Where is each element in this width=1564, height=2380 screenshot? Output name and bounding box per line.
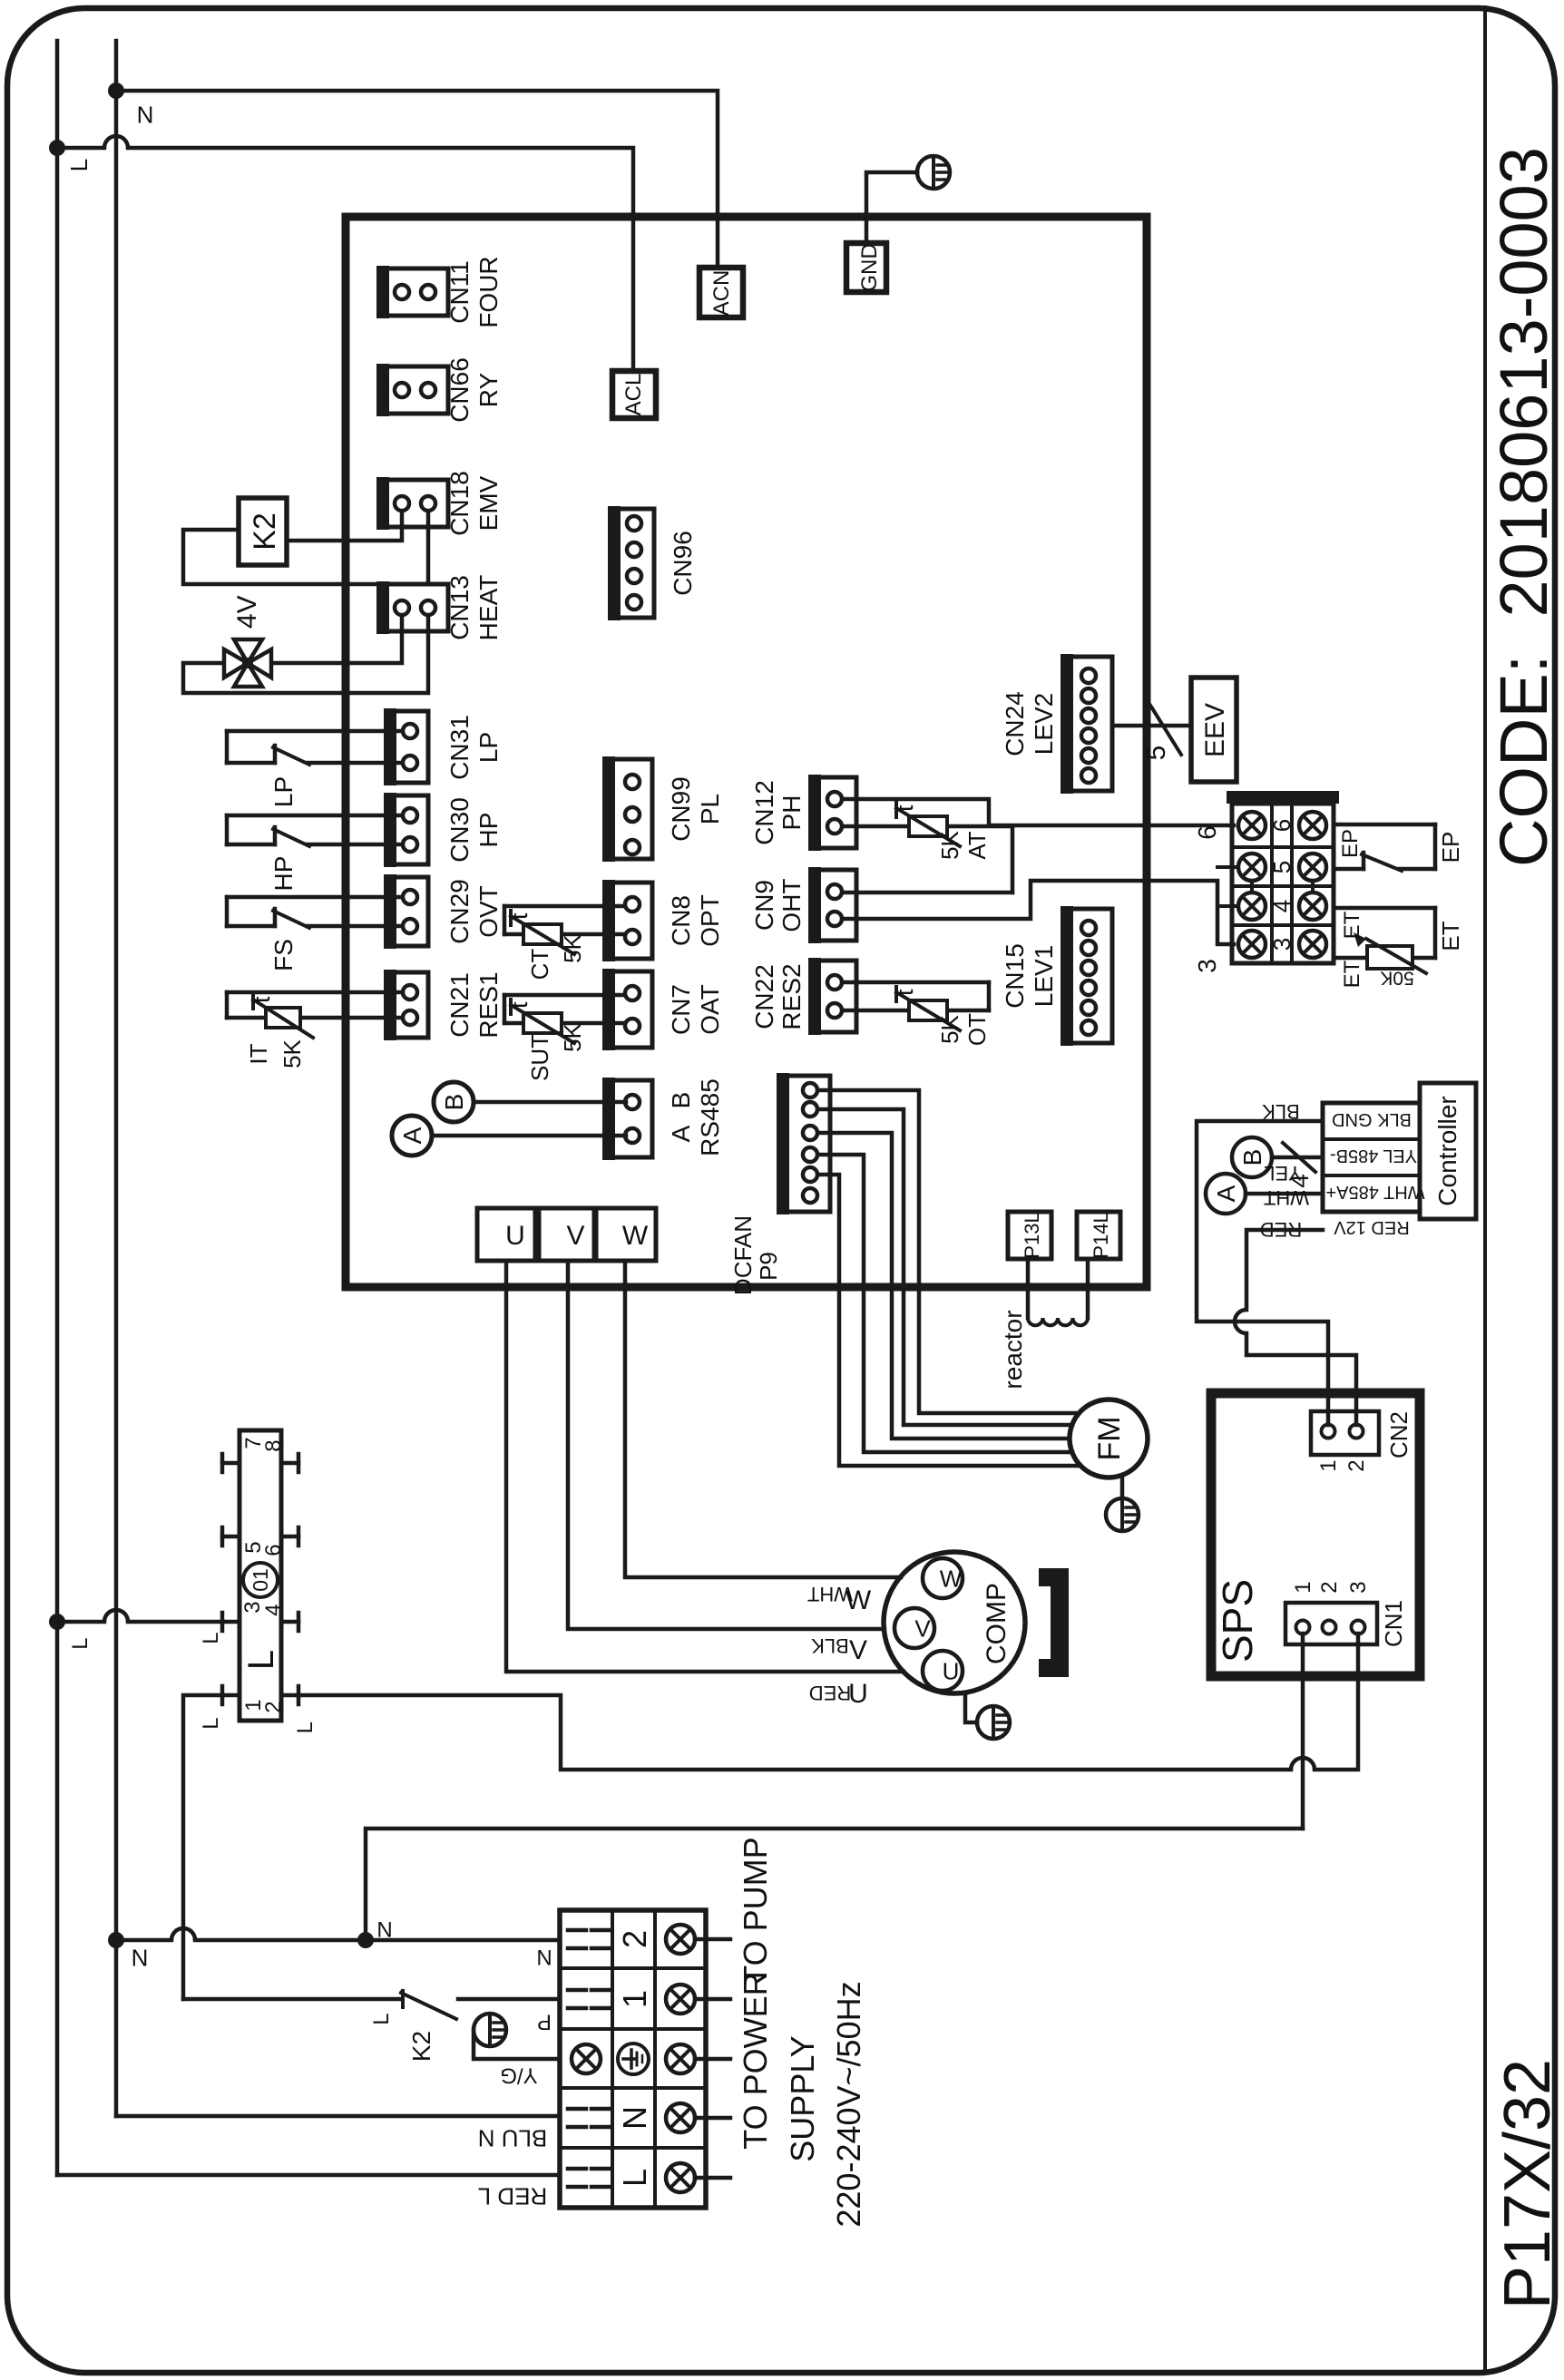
svg-text:4V: 4V [232, 595, 262, 629]
svg-text:CN13: CN13 [445, 575, 474, 640]
svg-text:CN12: CN12 [750, 780, 778, 845]
svg-text:U: U [943, 1657, 960, 1684]
svg-text:2: 2 [1344, 1459, 1369, 1471]
connector CN2 [1311, 1411, 1412, 1472]
svg-text:WHT: WHT [1264, 1186, 1309, 1209]
switch FS [227, 897, 402, 971]
svg-text:N: N [132, 1944, 149, 1971]
switch HP [227, 815, 402, 891]
terminal U on board [477, 1208, 535, 1261]
svg-text:SUT: SUT [526, 1034, 553, 1081]
terminal ACL [612, 371, 656, 418]
wire filter pin1 left [183, 1695, 223, 1999]
wire CN24 to EEV [1112, 724, 1191, 728]
svg-text:t: t [248, 996, 275, 1003]
svg-text:L: L [65, 159, 93, 171]
wire COMP to earth [965, 1693, 977, 1722]
node B with wire to RS485 [434, 1082, 626, 1122]
wire N trunk to CN1 pin1 [1301, 1634, 1305, 1829]
crankcase heater bracket [1039, 1568, 1069, 1677]
svg-text:ET: ET [1437, 921, 1464, 951]
svg-text:5K: 5K [936, 830, 963, 859]
svg-text:CN1: CN1 [1380, 1600, 1407, 1647]
label N at junction N3 [376, 1918, 392, 1943]
label SUPPLY [784, 2035, 821, 2161]
svg-text:OPT: OPT [696, 894, 724, 947]
label L at filter pin2 [293, 1722, 318, 1733]
svg-text:A: A [1212, 1185, 1240, 1202]
svg-text:CN24: CN24 [1001, 691, 1029, 756]
compressor COMP [884, 1552, 1025, 1693]
svg-text:LP: LP [269, 776, 298, 807]
svg-text:ACN: ACN [709, 270, 734, 317]
svg-text:B: B [667, 1092, 695, 1109]
wire AT to CN9 pin1 [843, 826, 1012, 892]
svg-text:P17X/32: P17X/32 [1491, 2059, 1564, 2309]
title text CODE 20180613-0003 [1486, 147, 1561, 867]
terminal V on board [539, 1208, 594, 1261]
svg-text:RES1: RES1 [474, 971, 503, 1038]
svg-text:4: 4 [1285, 1174, 1314, 1188]
connector CN24 LEV2 [1001, 654, 1112, 794]
label BLK wire [811, 1634, 849, 1657]
svg-text:P9: P9 [755, 1252, 782, 1281]
valve coil 4V [224, 595, 271, 687]
svg-text:B: B [1238, 1149, 1266, 1166]
junction node on L rail for filter [49, 1614, 65, 1630]
svg-text:CODE: 20180613-0003: CODE: 20180613-0003 [1486, 147, 1561, 867]
svg-text:L: L [199, 1632, 223, 1644]
connector CN12 PH [750, 775, 856, 851]
wire N to ACN [116, 91, 718, 268]
svg-text:LEV2: LEV2 [1030, 693, 1058, 756]
label TO POWER [737, 1972, 774, 2149]
svg-text:A: A [667, 1125, 695, 1142]
label 220-240V 50Hz [830, 1981, 867, 2227]
label 6 above strip [1193, 825, 1221, 840]
svg-text:RY: RY [474, 372, 503, 407]
svg-text:OT: OT [963, 1013, 991, 1046]
svg-text:5K: 5K [936, 1014, 963, 1043]
wire filter pin2 to SPS CN1 pin3 with hop [298, 1634, 1358, 1770]
svg-text:IT: IT [245, 1043, 272, 1064]
noise filter 01 [222, 1430, 298, 1721]
title block separator line [1483, 7, 1487, 2373]
svg-text:EP: EP [1338, 829, 1363, 858]
svg-text:CN21: CN21 [445, 972, 474, 1038]
svg-text:2: 2 [1317, 1581, 1342, 1593]
wire W to COMP [625, 1261, 901, 1577]
terminal P13L [1008, 1212, 1051, 1259]
svg-text:EP: EP [1437, 832, 1464, 863]
svg-text:COMP: COMP [982, 1583, 1012, 1664]
svg-text:t: t [505, 912, 533, 920]
thermistor AT 5K [843, 803, 1012, 860]
svg-text:CN30: CN30 [445, 797, 474, 863]
switch K2 contact to pump terminal 1 [183, 1991, 560, 2019]
svg-text:4: 4 [1268, 900, 1295, 912]
wire N to pump terminal 2 [116, 1928, 560, 1940]
svg-text:5K: 5K [559, 1022, 586, 1051]
wire CN18 pin2 to K2 [183, 512, 428, 584]
wire P9 pin to FM 4 [818, 1109, 1072, 1425]
wire P9 pin to FM 1 [818, 1175, 1080, 1466]
svg-text:PL: PL [696, 794, 724, 824]
thermistor CT 5K [504, 906, 624, 980]
connector CN7 OAT [602, 969, 724, 1050]
wire RED 12V to CN2 pin2 with hop [1235, 1230, 1356, 1425]
svg-text:L: L [616, 2169, 653, 2187]
thermistor SUT 5K [504, 995, 624, 1081]
svg-text:V: V [849, 1635, 867, 1665]
svg-text:5: 5 [1141, 746, 1171, 761]
svg-text:1: 1 [616, 1990, 653, 2008]
svg-text:PH: PH [777, 795, 806, 831]
svg-text:GND: GND [857, 243, 882, 291]
svg-text:U: U [505, 1221, 525, 1251]
svg-text:P: P [537, 2009, 552, 2034]
wire B to controller [1272, 1156, 1323, 1160]
svg-text:AT: AT [963, 831, 991, 859]
wire L rail to filter pin3 with hop [57, 1610, 223, 1622]
label U wire [848, 1679, 868, 1709]
svg-text:5K: 5K [279, 1039, 306, 1068]
label W wire [846, 1585, 872, 1615]
svg-text:FOUR: FOUR [474, 256, 503, 327]
wire L to ACL with hop over N [57, 136, 633, 371]
label L at junction L2 [68, 1637, 93, 1649]
svg-text:K2: K2 [407, 2031, 435, 2062]
svg-text:1: 1 [1316, 1459, 1341, 1471]
relay K2 [239, 498, 287, 565]
jumper 4-5 top [1250, 881, 1254, 892]
junction node on N rail [108, 1932, 124, 1948]
svg-text:DCFAN: DCFAN [729, 1215, 757, 1295]
label RED 12V [1334, 1217, 1410, 1237]
label L at filter pin1 [199, 1717, 223, 1729]
svg-text:FS: FS [269, 939, 298, 971]
connector CN9 OHT [750, 867, 856, 943]
earth Y/G to terminal E [474, 2014, 560, 2087]
svg-text:K2: K2 [248, 512, 282, 551]
svg-text:Controller: Controller [1433, 1096, 1461, 1205]
svg-text:LEV1: LEV1 [1030, 945, 1058, 1008]
wire P9 pin to FM 3 [818, 1133, 1070, 1439]
svg-text:WHT: WHT [807, 1583, 853, 1605]
svg-text:TO PUMP: TO PUMP [737, 1837, 774, 1985]
reactor coil [1028, 1259, 1088, 1325]
ground symbol at COMP [977, 1706, 1010, 1739]
wire N rail drop to power terminal N [116, 2114, 560, 2119]
connector RS485 A B [602, 1078, 724, 1160]
svg-text:ET: ET [1340, 911, 1364, 939]
svg-text:L: L [199, 1717, 223, 1729]
wire CN9 pin2 to terminal 3 [843, 881, 1234, 944]
node A with wire to RS485 [392, 1116, 626, 1156]
label N wire at terminal 2 [536, 1946, 552, 1971]
svg-text:FM: FM [1092, 1416, 1127, 1460]
connector CN1 [1285, 1581, 1407, 1647]
svg-text:4: 4 [261, 1604, 286, 1615]
slash 5 wires [1141, 697, 1181, 760]
wire P9 pin to FM 5 [818, 1090, 1079, 1413]
svg-text:2: 2 [616, 1930, 653, 1948]
label P wire [537, 2009, 552, 2034]
svg-text:01: 01 [249, 1568, 272, 1592]
wire A to controller [1246, 1192, 1323, 1196]
svg-text:6: 6 [261, 1544, 286, 1556]
svg-text:B: B [440, 1094, 468, 1111]
title text P17X/32 [1491, 2059, 1564, 2309]
svg-text:3: 3 [1193, 959, 1221, 973]
svg-text:HP: HP [474, 813, 503, 848]
svg-text:SPS: SPS [1214, 1579, 1261, 1663]
svg-text:P14L: P14L [1090, 1212, 1112, 1258]
svg-text:CN66: CN66 [445, 357, 474, 423]
wire CN13 pin2 to 4V [183, 616, 428, 693]
svg-text:BLK: BLK [811, 1634, 849, 1657]
svg-text:RED L: RED L [478, 2183, 548, 2210]
label 3 above strip [1193, 959, 1221, 973]
node B controller [1232, 1137, 1272, 1177]
label K2 switch [407, 2031, 435, 2062]
wire CN12 pin1 to terminal 6 [843, 799, 1234, 825]
svg-text:P13L: P13L [1021, 1212, 1043, 1258]
svg-text:OHT: OHT [777, 878, 806, 932]
svg-text:CN96: CN96 [669, 531, 697, 596]
valve EEV [1191, 678, 1237, 782]
junction node on N rail for ACN [108, 83, 124, 99]
wire BLK GND to CN2 pin1 [1197, 1121, 1328, 1425]
label WHT wire [807, 1583, 853, 1605]
junction node on L rail for ACL [49, 140, 65, 156]
label RED L [478, 2183, 548, 2210]
svg-text:YEL 485B-: YEL 485B- [1330, 1146, 1417, 1166]
wire CN18 pin1 to K2 [287, 512, 402, 541]
svg-text:HEAT: HEAT [474, 575, 503, 641]
svg-text:SUPPLY: SUPPLY [784, 2035, 821, 2161]
label SPS [1214, 1579, 1261, 1663]
svg-text:6: 6 [1268, 819, 1295, 832]
svg-text:OAT: OAT [696, 984, 724, 1034]
stubs above terminals 4 5 [1217, 867, 1237, 906]
node A controller [1206, 1174, 1246, 1214]
svg-text:V: V [566, 1221, 584, 1251]
wire U to COMP [506, 1261, 904, 1672]
svg-text:W: W [622, 1221, 649, 1251]
connector CN29 OVT [384, 874, 503, 949]
label L at K2 switch [369, 2013, 394, 2024]
svg-text:CN11: CN11 [445, 260, 474, 324]
label BLU N [478, 2125, 548, 2152]
svg-text:2: 2 [261, 1701, 286, 1712]
terminal GND [846, 243, 886, 292]
terminal divider [594, 1259, 596, 1263]
connector CN22 RES2 [750, 958, 856, 1035]
svg-text:RED: RED [809, 1682, 851, 1704]
svg-text:N: N [376, 1918, 392, 1943]
svg-text:TO POWER: TO POWER [737, 1972, 774, 2149]
svg-text:L: L [293, 1722, 318, 1733]
fan motor FM [1070, 1400, 1148, 1478]
svg-text:CN15: CN15 [1001, 943, 1029, 1009]
thermistor ET 50K [1334, 908, 1464, 988]
connector CN21 RES1 [384, 970, 503, 1040]
svg-text:1: 1 [1291, 1581, 1315, 1593]
connector CN30 HP [384, 793, 503, 867]
svg-text:Y/G: Y/G [500, 2063, 537, 2087]
label N near junction [132, 1944, 149, 1971]
connector CN96 [608, 506, 697, 620]
connector DCFAN P9 [729, 1073, 830, 1295]
connector CN11 FOUR [376, 256, 503, 327]
svg-text:N: N [616, 2106, 653, 2130]
svg-text:CN18: CN18 [445, 471, 474, 536]
svg-text:t: t [891, 805, 918, 812]
power terminal block L N E 1 2 [560, 1910, 730, 2208]
svg-text:V: V [914, 1614, 931, 1642]
svg-text:t: t [505, 1001, 533, 1009]
svg-text:BLU N: BLU N [478, 2125, 548, 2152]
svg-text:LP: LP [474, 732, 503, 763]
wire N to SPS CN1 pin1 [366, 1829, 1303, 1940]
terminal ACN [699, 268, 743, 317]
terminal strip TB1 3-6 [1227, 791, 1339, 963]
svg-text:RS485: RS485 [696, 1078, 724, 1156]
connector CN15 LEV1 [1001, 906, 1112, 1046]
switch LP [227, 731, 402, 807]
svg-text:CN29: CN29 [445, 879, 474, 944]
svg-text:BLK GND: BLK GND [1332, 1109, 1412, 1129]
svg-text:CN7: CN7 [667, 984, 695, 1035]
label N at junction N1 [137, 101, 154, 128]
svg-text:5: 5 [1268, 861, 1295, 873]
label RED wire [809, 1682, 851, 1704]
svg-text:N: N [137, 101, 154, 128]
svg-text:EEV: EEV [1200, 703, 1230, 757]
svg-text:50K: 50K [1380, 967, 1413, 988]
wire GND to earth [866, 172, 917, 243]
wire FM to earth [1120, 1478, 1125, 1498]
label L at filter pin3 [199, 1632, 223, 1644]
svg-text:W: W [940, 1565, 963, 1592]
label L at junction L1 [65, 159, 93, 171]
svg-text:A: A [398, 1127, 426, 1144]
svg-text:8: 8 [261, 1439, 286, 1451]
svg-text:3: 3 [1268, 938, 1295, 951]
svg-text:OVT: OVT [474, 885, 503, 938]
thermistor OT 5K [843, 982, 991, 1046]
svg-text:WHT 485A+: WHT 485A+ [1325, 1182, 1424, 1202]
svg-text:CN99: CN99 [667, 776, 695, 842]
thermistor IT 5K [227, 992, 402, 1068]
svg-text:6: 6 [1193, 825, 1221, 840]
svg-text:RED 12V: RED 12V [1334, 1217, 1410, 1237]
svg-text:CN22: CN22 [750, 964, 778, 1029]
svg-text:CN2: CN2 [1385, 1411, 1412, 1458]
svg-text:RES2: RES2 [777, 963, 806, 1029]
svg-text:220-240V~/50Hz: 220-240V~/50Hz [830, 1981, 867, 2227]
svg-text:CN9: CN9 [750, 880, 778, 931]
label RED [1260, 1218, 1302, 1241]
power supply SPS box [1211, 1393, 1420, 1676]
connector CN18 EMV [376, 471, 503, 536]
main control board outline [346, 217, 1147, 1287]
connector CN66 RY [376, 357, 503, 423]
controller terminal block [1323, 1103, 1425, 1212]
slash 4 wires [1283, 1143, 1315, 1188]
label TO PUMP [737, 1837, 774, 1985]
svg-text:CT: CT [526, 949, 553, 980]
wire CN13 pin1 to 4V [270, 616, 402, 663]
label YEL [1264, 1162, 1302, 1185]
svg-text:L: L [241, 1650, 281, 1670]
wire L rail drop to power terminal L [57, 2173, 560, 2178]
svg-text:CN31: CN31 [445, 715, 474, 780]
wire P9 pin to FM 2 [818, 1155, 1072, 1452]
svg-text:3: 3 [1346, 1581, 1371, 1593]
label V wire [849, 1635, 867, 1665]
svg-text:t: t [891, 989, 918, 996]
svg-text:ACL: ACL [621, 374, 646, 416]
svg-text:CN8: CN8 [667, 895, 695, 946]
connector CN8 OPT [602, 880, 724, 961]
pressure switch EP [1334, 824, 1464, 871]
terminal P14L [1077, 1212, 1120, 1259]
ground symbol at GND [917, 156, 950, 189]
jumper 4-5 bottom [1311, 881, 1315, 892]
connector CN31 LP [384, 708, 503, 785]
svg-text:L: L [68, 1637, 93, 1649]
label WHT [1264, 1186, 1309, 1209]
svg-text:reactor: reactor [999, 1310, 1027, 1389]
svg-text:HP: HP [269, 856, 298, 892]
svg-text:L: L [369, 2013, 394, 2024]
junction N3 [357, 1932, 374, 1948]
ground symbol at FM [1106, 1498, 1139, 1531]
svg-text:5K: 5K [559, 933, 586, 962]
svg-text:N: N [536, 1946, 552, 1971]
connector CN13 HEAT [376, 575, 503, 641]
label BLK [1262, 1100, 1300, 1123]
label reactor [999, 1310, 1027, 1389]
terminal W on board [596, 1208, 656, 1261]
svg-text:ET: ET [1340, 960, 1364, 988]
connector CN99 PL [602, 756, 724, 862]
wire V to COMP [568, 1261, 885, 1629]
controller box [1420, 1083, 1476, 1219]
svg-text:EMV: EMV [474, 475, 503, 531]
wire N rail [114, 41, 119, 2116]
wire L rail [55, 41, 60, 2175]
